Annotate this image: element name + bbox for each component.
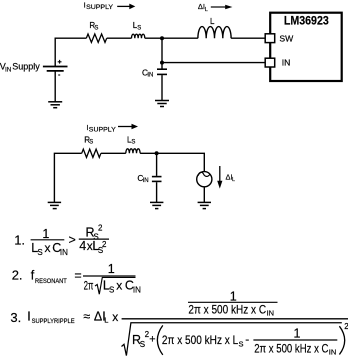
label ISUPPLY second circuit — [86, 123, 116, 134]
svg-text:IN: IN — [267, 309, 275, 318]
svg-text:4: 4 — [79, 239, 86, 253]
current source delta IL — [197, 172, 212, 187]
arrow delta IL second circuit — [217, 166, 222, 189]
svg-text:S: S — [137, 25, 141, 31]
svg-text:x: x — [112, 310, 118, 324]
svg-text:RESONANT: RESONANT — [35, 278, 67, 285]
wire LS to node A — [145, 37, 162, 39]
resistor RS second circuit — [82, 149, 101, 157]
svg-text:S: S — [89, 140, 93, 146]
svg-text:x: x — [45, 241, 51, 255]
wire RS to LS top circuit — [107, 37, 132, 39]
arrow ISUPPLY second circuit — [118, 124, 138, 130]
ground below battery — [48, 102, 62, 108]
svg-text:=: = — [74, 268, 81, 282]
svg-text:≈: ≈ — [83, 309, 90, 323]
svg-text:L: L — [232, 177, 235, 183]
svg-text:2π x 500 kHz x C: 2π x 500 kHz x C — [188, 303, 266, 317]
svg-text:S: S — [131, 140, 135, 146]
svg-text:S: S — [37, 248, 42, 257]
ground below current source — [198, 202, 211, 208]
wire CIN to ground second circuit — [156, 182, 158, 202]
svg-text:1: 1 — [230, 289, 237, 303]
pin IN — [265, 58, 290, 68]
wire battery to ground — [54, 71, 56, 102]
ground left second circuit — [48, 202, 61, 208]
svg-text:SUPPLY: SUPPLY — [89, 127, 117, 134]
wire L to SW pin — [231, 37, 265, 39]
wire VIN supply positive to resistor RS — [55, 38, 86, 66]
svg-text:IN: IN — [133, 286, 141, 295]
wire CIN to ground top circuit — [161, 75, 163, 100]
svg-text:2π x 500 kHz x L: 2π x 500 kHz x L — [162, 333, 239, 347]
wire node B to IN pin — [162, 62, 265, 64]
wire current source to ground — [203, 187, 205, 202]
svg-text:IN: IN — [143, 178, 149, 184]
ground below CIN second circuit — [150, 202, 163, 208]
svg-text:IN: IN — [60, 248, 68, 257]
wire RS to LS second circuit — [101, 152, 126, 154]
wire LS to node C — [140, 152, 157, 154]
svg-text:1: 1 — [108, 262, 115, 276]
wire left ground up and to resistor RS second circuit — [54, 153, 81, 202]
arrow delta IL top circuit — [211, 5, 233, 9]
svg-text:2: 2 — [344, 322, 348, 331]
label RS second circuit — [84, 136, 93, 146]
svg-text:+: + — [149, 334, 155, 346]
svg-text:IN: IN — [5, 66, 12, 73]
arrow ISUPPLY top circuit — [117, 4, 135, 10]
resistor RS top circuit — [86, 34, 106, 42]
svg-text:S: S — [239, 340, 244, 349]
svg-text:x: x — [116, 278, 122, 292]
inductor L — [198, 27, 231, 39]
label VIN Supply — [0, 61, 40, 73]
label ISUPPLY top circuit — [84, 1, 114, 12]
svg-text:SW: SW — [279, 34, 294, 44]
svg-text:2π: 2π — [84, 278, 94, 292]
label RS top circuit — [89, 21, 98, 31]
svg-text:I: I — [27, 309, 30, 323]
svg-text:LM36923: LM36923 — [284, 13, 329, 27]
label delta IL top circuit — [198, 2, 208, 13]
svg-text:-: - — [245, 332, 249, 346]
wire node C to current source — [157, 153, 205, 171]
equation 3 — [10, 289, 348, 356]
equation 2 — [12, 262, 141, 294]
battery VIN supply — [43, 60, 68, 75]
wire node A to inductor L — [162, 37, 198, 39]
svg-text:2.: 2. — [12, 268, 23, 283]
svg-text:L: L — [210, 17, 215, 26]
wire node A down to node B — [161, 38, 163, 62]
pin SW — [265, 34, 294, 44]
svg-text:SUPPLYRIPPLE: SUPPLYRIPPLE — [32, 318, 75, 325]
ground below CIN top circuit — [155, 101, 169, 107]
svg-text:S: S — [140, 340, 145, 349]
svg-text:Supply: Supply — [12, 61, 40, 71]
node B junction — [160, 61, 164, 65]
node A junction — [160, 36, 164, 40]
svg-text:IN: IN — [282, 58, 291, 68]
svg-text:1.: 1. — [14, 233, 25, 248]
svg-text:2: 2 — [98, 224, 103, 233]
capacitor CIN top circuit — [157, 69, 167, 74]
IC U1 LM36923 — [270, 13, 342, 81]
label LS top circuit — [133, 21, 141, 31]
svg-text:IN: IN — [147, 72, 153, 78]
svg-text:2π x 500 kHz x C: 2π x 500 kHz x C — [254, 341, 329, 355]
svg-text:L: L — [205, 7, 208, 13]
svg-text:S: S — [109, 286, 114, 295]
capacitor CIN second circuit — [152, 177, 162, 182]
label CIN second circuit — [137, 173, 148, 184]
svg-text:3.: 3. — [10, 310, 21, 325]
inductor LS second circuit — [126, 149, 140, 153]
label CIN top circuit — [142, 68, 153, 79]
svg-text:1: 1 — [42, 227, 49, 241]
inductor LS top circuit — [132, 34, 145, 38]
svg-text:>: > — [69, 233, 76, 247]
svg-text:IN: IN — [329, 347, 337, 356]
svg-text:L: L — [104, 316, 108, 325]
equation 1 — [14, 224, 109, 258]
svg-text:S: S — [94, 25, 98, 31]
label LS second circuit — [127, 136, 135, 146]
label delta IL second circuit — [226, 173, 236, 184]
wire node B to capacitor CIN top circuit — [161, 63, 163, 69]
svg-text:SUPPLY: SUPPLY — [86, 4, 114, 11]
svg-text:1: 1 — [294, 326, 301, 340]
node C junction — [155, 151, 159, 155]
svg-text:2: 2 — [102, 240, 107, 249]
wire node C to capacitor CIN second circuit — [156, 153, 158, 176]
